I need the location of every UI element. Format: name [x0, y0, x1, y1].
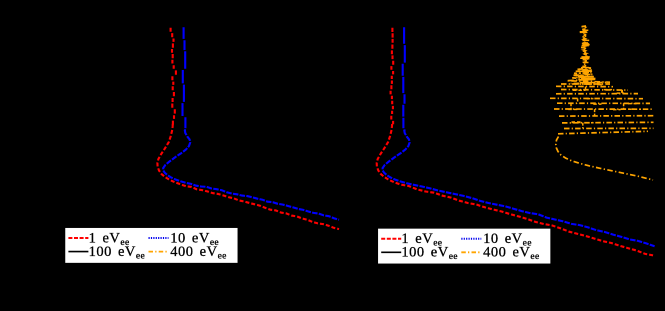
legend sample orange dash-dot: [461, 251, 481, 253]
panel 2 legend box: [378, 228, 551, 264]
panel 2 curve: 1 eVee (red dashed): [377, 124, 654, 256]
panel 2 blue curve vertical part: [403, 27, 405, 131]
panel 2 curve: 400 eVee (orange dash-dot noisy): [567, 26, 610, 85]
legend sample black solid: [381, 251, 401, 253]
orange spike horizontal nubs: [578, 30, 596, 82]
panel 1 blue curve vertical part: [183, 27, 186, 131]
panel 1 curve: 10 eVee (blue dotted): [163, 130, 339, 220]
legend sample orange dash-dot: [149, 251, 169, 253]
legend sample red dashed: [68, 237, 88, 239]
legend sample black solid: [68, 251, 88, 253]
orange hairpin and tail: [556, 137, 653, 181]
orange band filler dashes: [572, 122, 582, 124]
panel 2 red curve vertical part: [391, 28, 394, 125]
legend sample blue dotted: [149, 237, 169, 239]
orange band rows: [550, 84, 654, 134]
panel 1 curve: 1 eVee (red dashed): [157, 124, 339, 229]
legend sample red dashed: [381, 238, 401, 240]
panel 1 red curve vertical part: [171, 28, 176, 125]
legend sample blue dotted: [461, 238, 481, 240]
panel 1 legend box: [65, 227, 238, 263]
orange band vertical connectors: [623, 103, 625, 109]
panel 2 curve: 10 eVee (blue dotted): [383, 130, 655, 246]
